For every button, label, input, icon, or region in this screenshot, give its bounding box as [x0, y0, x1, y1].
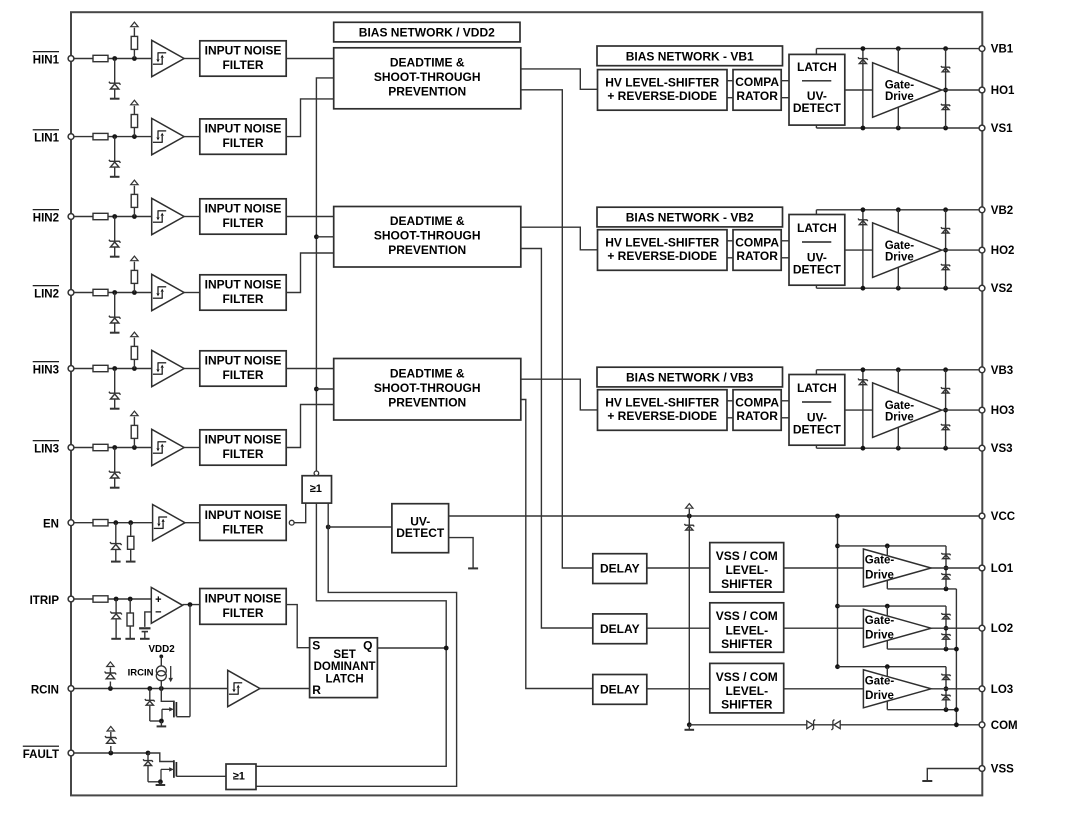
gate-drive amplifier HS3 [873, 383, 942, 438]
wire gate-drive2 VB tap [897, 210, 899, 233]
svg-text:LEVEL-: LEVEL- [725, 684, 768, 698]
svg-text:EN: EN [43, 519, 59, 531]
wire enable bus into deadtime3 [316, 388, 333, 390]
svg-text:VB3: VB3 [991, 365, 1013, 377]
pin HIN2 [68, 214, 74, 220]
svg-text:VSS / COM: VSS / COM [716, 609, 778, 623]
wire LIN2 resistor bottom [133, 283, 135, 292]
svg-text:FILTER: FILTER [222, 522, 263, 536]
separator line in latch box 1 [802, 80, 831, 82]
wire level-shifter1 to comparator1 upper [727, 80, 733, 82]
label VSS/COM LEVEL-SHIFTER 2 [716, 609, 778, 651]
supply arrow HIN3 pull-up [131, 332, 138, 337]
wire FAULT zener lower [147, 766, 149, 782]
svg-text:SHOOT-THROUGH: SHOOT-THROUGH [374, 229, 481, 243]
svg-text:VSS / COM: VSS / COM [716, 670, 778, 684]
svg-text:DEADTIME &: DEADTIME & [390, 367, 465, 381]
svg-text:INPUT NOISE: INPUT NOISE [205, 354, 282, 368]
svg-text:FILTER: FILTER [222, 136, 263, 150]
wire COM junction to ground [688, 725, 690, 730]
node gate-drive2 top tap [885, 604, 890, 609]
wire HIN2 resistor bottom [133, 207, 135, 216]
wire EN inverted to OR gate [294, 503, 306, 523]
label LATCH 2 [797, 221, 837, 235]
svg-text:FAULT: FAULT [23, 749, 59, 761]
block COMPARATOR 3 [733, 390, 781, 431]
pin VB3 [979, 367, 985, 373]
svg-text:FILTER: FILTER [222, 58, 263, 72]
label DEADTIME block 3 [374, 367, 481, 410]
svg-text:HO3: HO3 [991, 405, 1015, 417]
wire level-shifter3 to comparator3 lower [727, 417, 733, 419]
resistor LIN2 pull-up [131, 270, 137, 283]
wire deadtime2 HO output to level-shifter [521, 227, 598, 250]
wire level-shifter3 to gate-drive [784, 688, 864, 690]
node LIN1 clamp junction [112, 134, 117, 139]
wire deadtime3 LO output to delay3 [521, 400, 593, 689]
zener diode HO1 lower clamp [941, 104, 950, 110]
label DELAY 1 [600, 562, 640, 576]
svg-text:+: + [155, 594, 161, 606]
node EN pulldown junction [128, 520, 133, 525]
wire LO2 lower clamp branch [945, 628, 947, 649]
zener diode HO2 lower clamp [941, 264, 950, 270]
wire HIN3 pin to buffer input [74, 368, 152, 370]
wire HO3 upper clamp diode branch [945, 370, 947, 410]
comparator ITRIP [151, 587, 182, 623]
svg-text:Gate-: Gate- [885, 400, 915, 412]
block LATCH / UV-DETECT 1 [789, 54, 845, 125]
svg-text:RATOR: RATOR [736, 89, 778, 103]
pin VSS [979, 766, 985, 772]
svg-text:FILTER: FILTER [222, 292, 263, 306]
zener diode EN clamp [110, 542, 122, 549]
wire comparator1 to latch upper [781, 80, 789, 82]
wire latch3 top stub [815, 370, 817, 375]
wire level-shifter2 to gate-drive [784, 627, 864, 629]
label INPUT NOISE FILTER LIN1 [205, 122, 282, 151]
wire RCIN source to ground [160, 721, 162, 726]
svg-text:INPUT NOISE: INPUT NOISE [205, 278, 282, 292]
wire reference to ground [144, 632, 146, 639]
wire RCIN clamp upper [109, 668, 111, 674]
svg-text:VCC: VCC [991, 511, 1015, 523]
block SET DOMINANT LATCH [310, 638, 378, 698]
node VCC rail to gate-drives [835, 514, 840, 519]
svg-text:PREVENTION: PREVENTION [388, 395, 466, 409]
svg-text:Drive: Drive [865, 630, 894, 642]
node ITRIP comparator output [188, 602, 193, 607]
wire LIN1 resistor bottom [133, 127, 135, 136]
wire FAULT mosfet gate from OR [176, 775, 226, 777]
svg-text:−: − [155, 607, 161, 619]
wire HIN2 buffer to filter [184, 216, 200, 218]
svg-text:BIAS NETWORK - VB2: BIAS NETWORK - VB2 [626, 211, 754, 225]
ground RCIN mosfet [157, 725, 167, 727]
block INPUT NOISE FILTER LIN2 [200, 275, 286, 310]
wire VCC to COM zener branch [688, 516, 690, 725]
svg-text:VSS: VSS [991, 764, 1014, 776]
pin ITRIP [68, 596, 74, 602]
node HIN2 pull-up junction [132, 214, 137, 219]
block HV LEVEL-SHIFTER 1 [598, 70, 728, 111]
svg-text:INPUT NOISE: INPUT NOISE [205, 433, 282, 447]
label BIAS NETWORK / VB3 [626, 371, 754, 385]
schmitt buffer LIN3 [152, 429, 184, 465]
wire ITRIP reference branch [145, 612, 152, 627]
wire HIN2 zener branch [114, 217, 116, 242]
wire FAULT mosfet drain lead [148, 753, 174, 762]
svg-text:COMPA: COMPA [735, 235, 779, 249]
wire ITRIP zener to ground [115, 619, 117, 638]
node COM rail left junction [687, 722, 692, 727]
current source IRCIN [156, 666, 166, 681]
svg-text:VS1: VS1 [991, 123, 1013, 135]
supply arrow LIN2 pull-up [131, 256, 138, 261]
wire gate-drive3 top rail [838, 666, 947, 668]
ground LIN1 clamp [110, 176, 120, 178]
pin VB1 [979, 46, 985, 52]
node LIN1 pull-up junction [132, 134, 137, 139]
node HO2 diode junction [943, 248, 948, 253]
node VB2 rail junction x862 [861, 207, 866, 212]
svg-text:DETECT: DETECT [793, 422, 842, 436]
wire FAULT source to ground [159, 782, 161, 785]
ground HIN2 clamp [110, 256, 120, 258]
svg-text:INPUT NOISE: INPUT NOISE [205, 44, 282, 58]
wire HO2 output to pin [942, 249, 982, 251]
label COMPARATOR 1 [735, 75, 779, 103]
pin VB2 [979, 207, 985, 213]
svg-text:INPUT NOISE: INPUT NOISE [205, 508, 282, 522]
wire LIN3 zener branch [114, 448, 116, 473]
zener diode HIN1 input clamp [109, 82, 121, 89]
wire VCC feed to low-side gate-drives [837, 516, 839, 667]
node LO3 diode junction [944, 686, 949, 691]
node VS1 rail junction x945 [943, 126, 948, 131]
diode COM forward [807, 720, 815, 731]
pin LO3 [979, 686, 985, 692]
svg-text:LO3: LO3 [991, 684, 1013, 696]
wire ITRIP filter to latch S input [286, 605, 309, 648]
node ITRIP pulldown junction [128, 597, 133, 602]
inverter bubble EN filter output [289, 520, 294, 525]
wire latch3 to gate-drive input [845, 409, 873, 411]
wire ITRIP pulldown to ground [129, 626, 131, 639]
resistor LIN1 series input [93, 133, 108, 139]
supply arrow RCIN clamp [107, 662, 114, 667]
svg-text:HIN2: HIN2 [33, 213, 59, 225]
zener diode LO2 upper clamp [941, 613, 950, 619]
zener diode RCIN discharge [145, 699, 155, 705]
mosfet FAULT source arrow lead [161, 769, 170, 781]
wire UV fault net to fault OR gate [256, 527, 457, 786]
wire HO3 output to pin [942, 409, 982, 411]
svg-text:DELAY: DELAY [600, 682, 640, 696]
block UV-DETECT VCC [392, 504, 449, 553]
wire current source to RCIN node [160, 681, 162, 689]
svg-text:HIN1: HIN1 [33, 55, 60, 67]
pin HIN3 [68, 366, 74, 372]
wire LIN2 buffer to filter [184, 292, 200, 294]
label DEADTIME block 1 [374, 56, 481, 99]
node HO3 diode junction [943, 408, 948, 413]
svg-text:VB1: VB1 [991, 44, 1014, 56]
block BIAS NETWORK - VB1 [597, 46, 783, 66]
wire LIN1 zener to ground [114, 168, 116, 177]
node VS3 rail junction x898 [896, 446, 901, 451]
block VSS/COM LEVEL-SHIFTER 1 [710, 543, 784, 593]
wire LIN2 filter to deadtime (riser) [286, 253, 334, 293]
svg-text:Gate-: Gate- [885, 240, 915, 252]
zener diode LO1 upper clamp [941, 553, 950, 559]
block BIAS NETWORK - VB2 [597, 207, 783, 227]
wire latch2 bottom stub [815, 285, 817, 288]
block DEADTIME 2 [334, 207, 521, 268]
node gate-drive1 bottom rail diode junction [944, 587, 949, 592]
svg-text:HV LEVEL-SHIFTER: HV LEVEL-SHIFTER [605, 236, 719, 250]
wire comparator2 to latch lower [781, 257, 789, 259]
wire gate-drive2 top tap stem [886, 606, 888, 616]
label Gate-Drive HS2 [885, 240, 915, 263]
svg-text:DELAY: DELAY [600, 562, 640, 576]
block INPUT NOISE FILTER EN [200, 505, 286, 540]
zener diode LIN1 input clamp [109, 160, 121, 167]
wire HIN1 zener branch [114, 59, 116, 84]
wire RCIN mosfet drain lead [176, 716, 190, 718]
zener diode FAULT clamp [105, 736, 117, 743]
wire EN zener to ground [115, 550, 117, 562]
resistor LIN2 series input [93, 289, 108, 295]
svg-text:HV LEVEL-SHIFTER: HV LEVEL-SHIFTER [605, 396, 719, 410]
svg-text:LIN2: LIN2 [34, 289, 59, 301]
wire delay3 to level-shifter [647, 688, 710, 690]
wire level-shifter1 to gate-drive [784, 567, 864, 569]
svg-text:RCIN: RCIN [31, 685, 59, 697]
label UV-DETECT 2 [793, 250, 842, 276]
label INPUT NOISE FILTER LIN3 [205, 433, 282, 462]
node RCIN discharge junction [147, 686, 152, 691]
wire HO1 lower clamp diode branch [945, 90, 947, 128]
svg-text:PREVENTION: PREVENTION [388, 243, 466, 257]
zener diode LO1 lower clamp [941, 573, 950, 579]
block VSS/COM LEVEL-SHIFTER 3 [710, 663, 784, 713]
ground EN pull-down [126, 561, 136, 563]
wire COM rail [689, 724, 982, 726]
svg-text:FILTER: FILTER [222, 447, 263, 461]
wire HIN3 filter to deadtime [286, 368, 334, 370]
svg-text:Drive: Drive [885, 91, 914, 103]
svg-text:HO1: HO1 [991, 85, 1015, 97]
pin VS2 [979, 285, 985, 291]
gate-drive amplifier LS2 [863, 609, 931, 647]
block DELAY 2 [593, 614, 647, 644]
svg-text:VDD2: VDD2 [149, 644, 176, 655]
block LATCH / UV-DETECT 3 [789, 375, 845, 446]
wire gate-drive1 bottom tap stem [886, 580, 888, 589]
node enable bus to deadtime3 [314, 387, 319, 392]
wire latch1 to gate-drive input [845, 89, 873, 91]
zener diode RCIN clamp [105, 672, 117, 679]
svg-text:Gate-: Gate- [865, 675, 895, 687]
block DELAY 3 [593, 675, 647, 705]
label Gate-Drive LS1 [865, 555, 895, 582]
label VSS/COM LEVEL-SHIFTER 1 [716, 549, 778, 591]
node gate-drive3 return junction [954, 707, 959, 712]
block COMPARATOR 2 [733, 230, 781, 271]
node HIN2 clamp junction [112, 214, 117, 219]
svg-text:BIAS NETWORK - VB1: BIAS NETWORK - VB1 [626, 49, 754, 63]
wire LO2 upper clamp branch [945, 606, 947, 628]
block INPUT NOISE FILTER HIN3 [200, 351, 286, 386]
pin HO2 [979, 247, 985, 253]
wire FAULT zener upper [147, 753, 149, 761]
svg-text:FILTER: FILTER [222, 216, 263, 230]
node RCIN clamp junction [108, 686, 113, 691]
wire latch2 to gate-drive input [845, 249, 873, 251]
svg-text:LATCH: LATCH [797, 60, 837, 74]
ground ITRIP clamp [111, 638, 121, 640]
resistor ITRIP pull-down [127, 613, 133, 626]
mosfet RCIN discharge [174, 701, 177, 718]
node LO1 diode junction [944, 566, 949, 571]
node HIN3 clamp junction [112, 366, 117, 371]
wire UV-DETECT ground branch [449, 538, 474, 569]
pin VCC [979, 513, 985, 519]
ground FAULT mosfet [156, 784, 166, 786]
block INPUT NOISE FILTER LIN1 [200, 119, 286, 154]
label DELAY 2 [600, 622, 640, 636]
block INPUT NOISE FILTER ITRIP [200, 589, 286, 625]
wire LIN1 pin to buffer input [74, 136, 152, 138]
node EN zener junction [113, 520, 118, 525]
node LIN2 clamp junction [112, 290, 117, 295]
node VCC feed gate-drive1 [835, 544, 840, 549]
svg-text:+ REVERSE-DIODE: + REVERSE-DIODE [607, 409, 717, 423]
svg-text:SHOOT-THROUGH: SHOOT-THROUGH [374, 70, 481, 84]
mosfet RCIN source arrow lead [162, 709, 170, 721]
block INPUT NOISE FILTER HIN2 [200, 199, 286, 234]
zener diode HO2 upper clamp [941, 227, 950, 233]
ground VSS [922, 780, 932, 782]
block HV LEVEL-SHIFTER 3 [598, 390, 728, 431]
svg-text:DETECT: DETECT [396, 526, 445, 540]
overline for HIN2 label [33, 209, 59, 211]
resistor HIN1 series input [93, 55, 108, 61]
zener diode LO3 lower clamp [941, 694, 950, 700]
node VB1 rail junction x945 [943, 46, 948, 51]
svg-text:LEVEL-: LEVEL- [725, 623, 768, 637]
gate-drive amplifier LS3 [863, 670, 931, 708]
wire HIN1 filter to deadtime [286, 58, 334, 60]
VDD2 terminal dot [159, 655, 163, 659]
resistor EN pull-down [128, 536, 134, 549]
svg-text:≥1: ≥1 [233, 770, 245, 782]
svg-text:LO2: LO2 [991, 623, 1013, 635]
node VB3 rail junction x862 [861, 367, 866, 372]
pin HO3 [979, 407, 985, 413]
wire VB3 rail [816, 369, 982, 371]
wire UV-DETECT to VCC rail [449, 515, 982, 517]
block HV LEVEL-SHIFTER 2 [598, 230, 728, 271]
node HO1 diode junction [943, 88, 948, 93]
schmitt buffer HIN3 [152, 350, 184, 386]
label HV LEVEL-SHIFTER 2 [605, 236, 719, 263]
block DEADTIME 3 [334, 359, 521, 421]
zener diode HIN3 input clamp [109, 392, 121, 399]
wire comparator1 to latch lower [781, 97, 789, 99]
resistor HIN3 series input [93, 365, 108, 371]
wire FAULT zener to source node [148, 781, 160, 783]
ground LIN3 clamp [110, 487, 120, 489]
wire VS2 rail [816, 287, 982, 289]
schmitt buffer HIN2 [152, 198, 184, 234]
wire EN pulldown to ground [130, 549, 132, 561]
label UV-DETECT 3 [793, 410, 842, 436]
wire HIN3 resistor to supply arrow [133, 338, 135, 347]
node VS3 rail junction x862 [861, 446, 866, 451]
pin VS3 [979, 445, 985, 451]
svg-text:BIAS NETWORK / VDD2: BIAS NETWORK / VDD2 [359, 25, 495, 39]
wire LO3 upper clamp branch [945, 667, 947, 689]
zener diode LIN2 input clamp [109, 316, 121, 323]
pin COM [979, 722, 985, 728]
wire comparator3 to latch lower [781, 417, 789, 419]
svg-text:VB2: VB2 [991, 205, 1013, 217]
block BIAS NETWORK / VB3 [597, 367, 783, 387]
gate-drive amplifier HS2 [873, 223, 942, 278]
wire LO1 upper clamp branch [945, 546, 947, 568]
svg-text:SHIFTER: SHIFTER [721, 698, 773, 712]
wire bootstrap zener3 branch [862, 370, 864, 448]
overline for HIN3 label [33, 361, 59, 363]
wire RCIN pin to buffer [74, 688, 228, 690]
arrow IRCIN direction [170, 666, 172, 679]
svg-text:COM: COM [991, 720, 1018, 732]
schmitt buffer LIN1 [152, 118, 184, 154]
label Gate-Drive LS3 [865, 675, 895, 702]
node VS1 rail junction x862 [861, 126, 866, 131]
node VS2 rail junction x862 [861, 286, 866, 291]
wire EN buffer to filter [185, 522, 200, 524]
svg-text:+ REVERSE-DIODE: + REVERSE-DIODE [607, 89, 717, 103]
label Gate-Drive HS3 [885, 400, 915, 424]
wire gate-drive2 VS tap [897, 267, 899, 288]
svg-text:Q: Q [363, 639, 372, 653]
node VB2 rail junction x898 [896, 207, 901, 212]
node VB3 rail junction x898 [896, 367, 901, 372]
label LATCH 3 [797, 381, 837, 395]
overline for HIN1 label [33, 51, 59, 53]
wire HO2 lower clamp diode branch [945, 250, 947, 288]
svg-text:COMPA: COMPA [735, 75, 779, 89]
pin RCIN [68, 686, 74, 692]
svg-text:LATCH: LATCH [797, 381, 837, 395]
wire HIN2 filter to deadtime [286, 216, 334, 218]
svg-text:VS2: VS2 [991, 283, 1013, 295]
resistor HIN3 pull-up [131, 346, 137, 359]
node gate-drive2 return junction [954, 647, 959, 652]
reference cell ITRIP threshold [139, 628, 150, 631]
pin HIN1 [68, 56, 74, 62]
separator line in latch box 3 [802, 401, 831, 403]
svg-text:ITRIP: ITRIP [30, 595, 60, 607]
label COMPARATOR 2 [735, 235, 779, 263]
wire HIN1 resistor to supply arrow [133, 28, 135, 37]
wire comparator3 to latch upper [781, 400, 789, 402]
wire gate-drive1 bottom rail [887, 588, 956, 590]
wire FAULT clamp lower [110, 746, 112, 753]
